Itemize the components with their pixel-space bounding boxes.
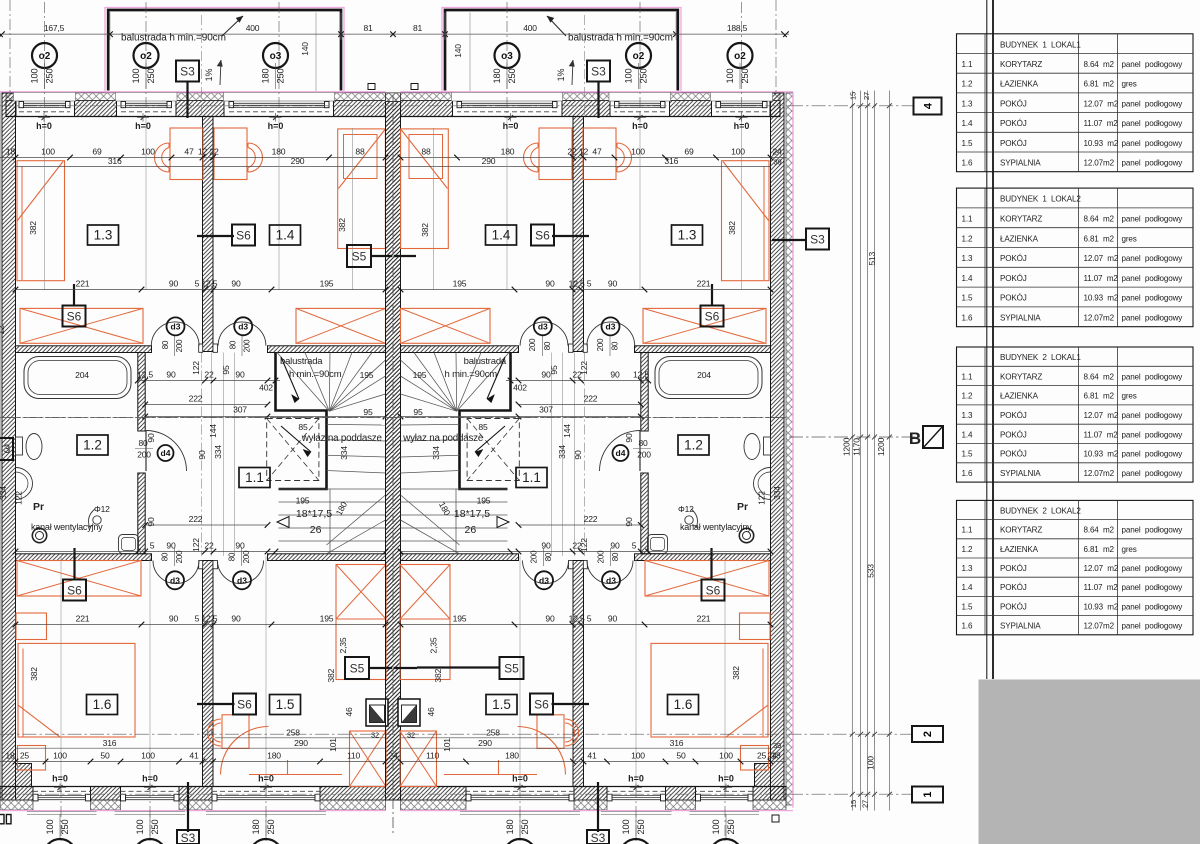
svg-text:200: 200 [137,450,151,460]
axis marker 4 [914,98,942,115]
svg-text:Pr: Pr [737,501,748,513]
svg-text:3: 3 [4,442,11,456]
svg-text:81: 81 [413,23,423,33]
svg-text:81: 81 [363,23,373,33]
svg-text:100: 100 [631,147,645,157]
svg-text:11.07 m2: 11.07 m2 [1084,119,1119,128]
svg-text:1%: 1% [556,68,566,81]
window label o2 [626,43,651,68]
svg-text:1200: 1200 [842,437,852,456]
symbol box S6 [531,225,554,246]
svg-text:22: 22 [567,147,577,157]
svg-text:balustrada: balustrada [464,356,507,367]
svg-text:334: 334 [557,445,567,459]
svg-text:258: 258 [286,728,300,738]
balcony slab outline pink [105,8,344,93]
tiny box at balcony corner [368,84,375,90]
svg-text:316: 316 [664,156,678,166]
svg-text:1.3: 1.3 [678,228,697,243]
svg-text:h=0: h=0 [36,121,52,131]
svg-text:Φ12: Φ12 [94,504,110,514]
svg-text:180: 180 [505,820,515,835]
leader: S6 room 1.4 [197,235,234,237]
svg-text:POKÓJ: POKÓJ [1000,99,1027,108]
svg-text:panel podłogowy: panel podłogowy [1122,294,1184,303]
furniture: bed room 1.3 [17,161,65,281]
furniture: desk+chair room 1.4 [214,128,247,180]
svg-text:195: 195 [413,370,427,380]
svg-text:18*17,5: 18*17,5 [296,508,332,520]
svg-text:26: 26 [465,524,477,536]
svg-text:290: 290 [478,738,492,748]
svg-text:90: 90 [608,614,618,624]
leader: S3 bottom [187,782,189,832]
svg-text:h=0: h=0 [258,774,274,784]
svg-text:panel podłogowy: panel podłogowy [1122,622,1184,631]
svg-text:panel podłogowy: panel podłogowy [1122,119,1184,128]
wall: bottom exterior masonry piers [0,787,33,801]
S3 boxes bottom [177,830,199,844]
svg-text:307: 307 [233,405,247,415]
svg-text:1.3: 1.3 [962,411,973,420]
wall: top exterior masonry piers [6,101,16,117]
symbol box S5 [347,245,371,267]
svg-text:panel podłogowy: panel podłogowy [1122,564,1184,573]
svg-text:100: 100 [866,756,876,770]
room label 1.2 [678,435,709,455]
svg-text:balustrada: balustrada [280,356,323,367]
svg-text:BUDYNEK 2 LOKAL1: BUDYNEK 2 LOKAL1 [1000,353,1081,362]
svg-text:6.81 m2: 6.81 m2 [1084,392,1115,401]
svg-text:12,5 5: 12,5 5 [569,279,592,289]
symbol box S5 [345,657,369,679]
svg-text:250: 250 [266,820,276,835]
symbol box S3 [806,229,829,250]
svg-text:12,5: 12,5 [137,370,153,380]
door label d3 [167,317,185,335]
svg-text:41: 41 [587,751,597,761]
furniture: bed room 1.6 [18,643,135,737]
svg-text:90: 90 [235,370,245,380]
svg-text:27: 27 [861,800,870,808]
svg-text:POKÓJ: POKÓJ [1000,411,1027,420]
svg-text:1.2: 1.2 [83,438,102,453]
dim line: top chain [0,33,789,35]
svg-text:1.1: 1.1 [962,60,973,69]
svg-text:S6: S6 [236,228,251,242]
table BUDYNEK 2 LOKAL1 [957,347,1194,482]
svg-text:50: 50 [676,751,686,761]
svg-text:100: 100 [131,69,141,84]
svg-text:144: 144 [208,424,218,438]
svg-text:46: 46 [344,707,354,717]
svg-text:panel podłogowy: panel podłogowy [1122,469,1184,478]
symbol box S3 [176,61,199,82]
svg-text:334: 334 [213,445,223,459]
svg-text:gres: gres [1122,392,1137,401]
svg-text:90: 90 [146,433,156,443]
wall: partition between rooms 1.3/1.4 [203,117,214,352]
svg-text:100: 100 [725,69,735,84]
svg-text:1.3: 1.3 [962,99,973,108]
pink outer face lines [0,91,386,93]
svg-text:95: 95 [413,407,423,417]
svg-text:15: 15 [849,800,858,808]
wall: top exterior insulation [6,93,14,101]
svg-text:100: 100 [731,147,745,157]
furniture: wardrobe room 1.4 [296,308,386,343]
svg-text:S3: S3 [591,64,606,78]
room label 1.1 [239,468,270,488]
svg-text:BUDYNEK 2 LOKAL2: BUDYNEK 2 LOKAL2 [1000,506,1081,515]
svg-text:ŁAZIENKA: ŁAZIENKA [1000,545,1039,554]
svg-text:panel podłogowy: panel podłogowy [1122,159,1184,168]
leader: S6 room 1.6 [73,548,75,580]
svg-text:15: 15 [849,92,858,100]
svg-text:180: 180 [501,147,515,157]
svg-text:95: 95 [549,365,559,375]
svg-text:100: 100 [41,147,55,157]
svg-text:200: 200 [175,339,184,352]
svg-text:h=0: h=0 [503,121,519,131]
svg-text:SYPIALNIA: SYPIALNIA [1000,159,1041,168]
axis marker 1 [912,787,943,803]
svg-text:250: 250 [60,820,70,835]
svg-text:195: 195 [320,614,334,624]
svg-text:180: 180 [261,69,271,84]
svg-text:10.93 m2: 10.93 m2 [1084,602,1119,611]
svg-text:122: 122 [191,538,201,552]
svg-text:1.3: 1.3 [962,254,973,263]
svg-text:1.4: 1.4 [962,274,973,283]
furniture: nightstand room 1.6 [16,613,47,640]
svg-text:1.4: 1.4 [962,430,973,439]
svg-text:180: 180 [267,751,281,761]
svg-text:90: 90 [169,614,179,624]
furniture: toilet [16,437,23,455]
symbol box S6 [233,694,256,715]
svg-text:200: 200 [596,338,605,351]
washbasin [16,468,33,500]
svg-text:panel podłogowy: panel podłogowy [1122,99,1184,108]
svg-text:32: 32 [407,731,415,740]
svg-text:22: 22 [204,541,214,551]
svg-text:1.1: 1.1 [245,470,264,485]
svg-text:47: 47 [184,147,194,157]
svg-text:90: 90 [197,450,207,460]
svg-text:250: 250 [639,69,649,84]
svg-text:85: 85 [478,422,488,432]
window label o3 [263,43,288,68]
svg-text:panel podłogowy: panel podłogowy [1122,583,1184,592]
svg-text:d3: d3 [171,322,181,332]
door frame blocks at bottom stub [199,561,203,569]
svg-text:382: 382 [326,668,336,682]
room label 1.4 [486,225,517,245]
svg-text:88: 88 [355,147,365,157]
svg-text:250: 250 [636,820,646,835]
dim line: bottom rooms chain [0,761,386,763]
svg-text:95: 95 [221,365,231,375]
furniture: desk+chair room 1.5 [222,715,249,749]
svg-text:47: 47 [592,147,602,157]
svg-text:12.07m2: 12.07m2 [1084,622,1115,631]
symbol box S3 [587,61,610,82]
svg-text:90: 90 [235,541,245,551]
svg-text:1.5: 1.5 [276,697,295,712]
svg-text:1.6: 1.6 [962,314,973,323]
svg-text:8.64 m2: 8.64 m2 [1084,215,1115,224]
svg-text:200: 200 [243,339,252,352]
windows: top wall [14,92,76,101]
symbol box S5 [500,657,524,679]
svg-text:12.07m2: 12.07m2 [1084,159,1115,168]
svg-text:222: 222 [189,514,203,524]
svg-text:334: 334 [431,446,441,460]
svg-text:200: 200 [530,550,539,563]
svg-text:1.5: 1.5 [962,450,973,459]
svg-text:80: 80 [611,552,620,561]
svg-text:290: 290 [291,156,305,166]
svg-text:1.6: 1.6 [674,697,693,712]
svg-text:100: 100 [30,69,40,84]
svg-text:100: 100 [45,820,55,835]
svg-text:195: 195 [320,279,334,289]
svg-text:1: 1 [922,791,934,797]
svg-text:221: 221 [76,279,90,289]
svg-text:S6: S6 [535,228,550,242]
svg-text:200: 200 [242,550,251,563]
wall: bottom exterior insulation [0,800,33,810]
symbol box S6 [63,580,86,601]
svg-text:22: 22 [572,541,582,551]
door label d3 [535,571,553,589]
dim line: rooms bottom chain y289 [16,289,386,291]
door label d3 [233,571,251,589]
svg-text:1.6: 1.6 [93,697,112,712]
svg-text:Φ12: Φ12 [678,504,694,514]
svg-text:o3: o3 [501,51,513,62]
svg-text:180: 180 [251,820,261,835]
svg-text:1.1: 1.1 [522,470,541,485]
svg-text:250: 250 [507,69,517,84]
dim line: bottom rooms totals [215,737,386,739]
svg-text:h=0: h=0 [512,774,528,784]
svg-text:1%: 1% [204,68,214,81]
svg-text:BUDYNEK 1 LOKAL2: BUDYNEK 1 LOKAL2 [1000,195,1081,204]
svg-text:80: 80 [228,552,237,561]
svg-text:1.4: 1.4 [962,119,973,128]
svg-text:S6: S6 [705,309,720,323]
tiny box bottom right corner [772,815,779,822]
door d4 bathroom arc [146,431,187,472]
svg-text:12.07 m2: 12.07 m2 [1084,411,1119,420]
svg-text:100: 100 [711,820,721,835]
symbol box S6 [701,306,724,327]
window label o2 [728,43,753,68]
symbol box S6 [63,306,86,327]
axis connector dash-dot lines [789,105,913,107]
svg-text:12.07m2: 12.07m2 [1084,469,1115,478]
svg-text:195: 195 [477,496,491,506]
svg-text:250: 250 [726,820,736,835]
svg-text:POKÓJ: POKÓJ [1000,119,1027,128]
svg-text:25: 25 [20,751,30,761]
furniture: desk+chair room 1.3 [170,128,203,180]
svg-text:90: 90 [231,614,241,624]
axis marker 2 [912,726,943,742]
svg-text:90: 90 [573,450,583,460]
stairs: attic hatch dashed square [267,419,319,481]
svg-text:d3: d3 [538,322,548,332]
svg-text:panel podłogowy: panel podłogowy [1122,60,1184,69]
axis dash-dot: party wall [392,95,394,836]
svg-text:250: 250 [276,69,286,84]
svg-text:6.81 m2: 6.81 m2 [1084,545,1115,554]
furniture: bed room 1.4 [338,129,386,249]
table BUDYNEK 1 LOKAL2 [957,188,1194,327]
washing machine bathroom [119,535,139,554]
stairs: direction arrow upper [281,357,299,399]
svg-text:110: 110 [426,751,440,761]
svg-text:316: 316 [670,738,684,748]
svg-text:12: 12 [0,325,6,335]
svg-text:122: 122 [191,361,201,375]
svg-text:144: 144 [562,424,572,438]
svg-text:90: 90 [146,517,156,527]
svg-text:o2: o2 [39,51,51,62]
svg-text:1.2: 1.2 [684,438,703,453]
svg-text:BUDYNEK 1 LOKAL1: BUDYNEK 1 LOKAL1 [1000,40,1081,49]
room label 1.3 [88,225,119,245]
svg-text:69: 69 [684,147,694,157]
svg-text:180: 180 [492,69,502,84]
furniture: cabinet room 1.6 south wall [18,746,46,771]
svg-text:12,5 5: 12,5 5 [569,614,592,624]
svg-text:S6: S6 [67,583,82,597]
svg-text:85: 85 [298,422,308,432]
axis dash-dot: left edge [9,0,11,92]
svg-text:46: 46 [426,707,436,717]
svg-text:1.5: 1.5 [962,294,973,303]
svg-text:200: 200 [175,550,184,563]
svg-text:27: 27 [862,92,871,100]
door label d4 [613,445,629,461]
svg-text:22: 22 [204,370,214,380]
stairs: start marker triangle [277,517,289,528]
svg-text:382: 382 [731,666,741,680]
svg-text:140: 140 [453,44,463,58]
table BUDYNEK 1 LOKAL1 [957,34,1194,172]
stairs: attic hatch arrow [281,426,311,452]
corner block room 1.6 southwest [16,764,32,787]
svg-text:d3: d3 [539,576,549,586]
dim line: top rooms chain A [0,157,386,159]
leader: S6 room 1.5 [197,703,235,705]
svg-text:250: 250 [150,820,160,835]
svg-text:gres: gres [1122,80,1137,89]
svg-text:80: 80 [229,340,238,349]
svg-text:S3: S3 [591,831,606,844]
svg-text:POKÓJ: POKÓJ [1000,254,1027,263]
furniture: wardrobe room 1.5 lower [350,731,387,787]
svg-text:5 12,5: 5 12,5 [195,279,218,289]
room label 1.1 [516,468,547,488]
svg-text:250: 250 [520,820,530,835]
svg-text:1.1: 1.1 [962,215,973,224]
svg-text:195: 195 [360,370,374,380]
svg-text:100: 100 [135,820,145,835]
svg-text:12: 12 [579,147,589,157]
right side vertical dim lines [851,91,853,811]
svg-text:1.4: 1.4 [492,228,511,243]
svg-text:gres: gres [1122,545,1137,554]
svg-text:1.4: 1.4 [962,583,973,592]
svg-text:1.6: 1.6 [962,469,973,478]
door d3 top-left arc [151,322,199,346]
svg-text:ŁAZIENKA: ŁAZIENKA [1000,392,1039,401]
svg-text:S6: S6 [534,697,549,711]
axis dash-dot: partition top [201,15,203,116]
svg-text:32: 32 [371,731,379,740]
svg-text:KORYTARZ: KORYTARZ [1000,215,1042,224]
svg-text:26: 26 [310,524,322,536]
svg-text:12: 12 [198,147,208,157]
svg-text:panel podłogowy: panel podłogowy [1122,602,1184,611]
svg-text:221: 221 [697,614,711,624]
svg-text:140: 140 [300,42,310,56]
svg-text:533: 533 [866,564,876,578]
svg-text:22: 22 [209,147,219,157]
entrance door swing room 1.5 [221,727,269,775]
furniture: tall cabinet room 1.5 [336,565,386,680]
svg-text:90: 90 [610,541,620,551]
svg-text:195: 195 [453,279,467,289]
svg-text:11.07 m2: 11.07 m2 [1084,583,1119,592]
table BUDYNEK 2 LOKAL2 [957,500,1194,634]
svg-text:d3: d3 [606,576,616,586]
svg-text:1200: 1200 [876,437,886,456]
svg-text:wyłaz na poddasze: wyłaz na poddasze [301,433,383,444]
stairs: balustrade [276,353,327,490]
svg-text:222: 222 [189,394,203,404]
svg-text:KORYTARZ: KORYTARZ [1000,60,1042,69]
svg-text:panel podłogowy: panel podłogowy [1122,314,1184,323]
leader: S5 bottom [369,667,392,669]
svg-text:1.1: 1.1 [962,526,973,535]
svg-text:1.2: 1.2 [962,545,973,554]
svg-text:90: 90 [169,279,179,289]
room label 1.6 [668,695,699,715]
wall: partition between rooms 1.6/1.5 [203,561,214,787]
svg-text:101: 101 [442,738,452,752]
svg-text:o2: o2 [633,51,645,62]
svg-text:o2: o2 [734,51,746,62]
svg-text:d3: d3 [606,322,616,332]
svg-text:d4: d4 [616,448,626,458]
leader: S3 top [186,81,188,118]
furniture: wardrobe room 1.3 [20,308,143,343]
svg-text:258: 258 [486,728,500,738]
svg-text:90: 90 [624,517,634,527]
svg-text:100: 100 [141,751,155,761]
svg-text:h=0: h=0 [632,121,648,131]
svg-text:1.5: 1.5 [962,139,973,148]
svg-text:100: 100 [53,751,67,761]
svg-text:2: 2 [922,731,934,737]
svg-text:8.64 m2: 8.64 m2 [1084,60,1115,69]
door label d4 [158,445,174,461]
